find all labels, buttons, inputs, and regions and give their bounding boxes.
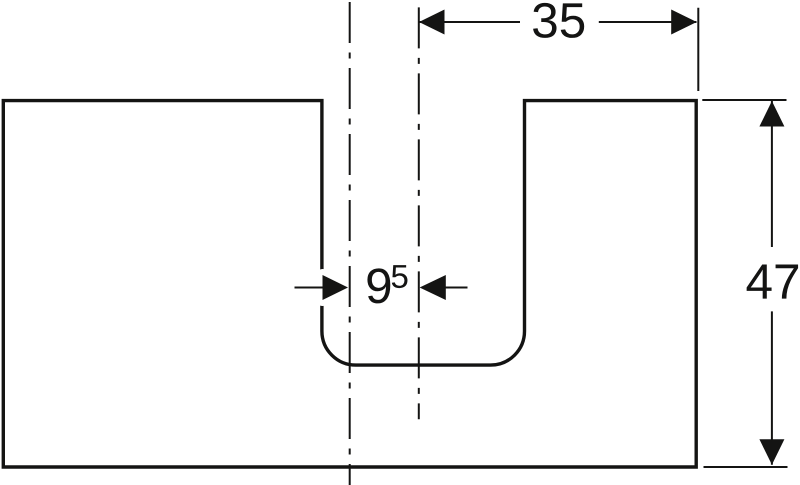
centerline CL1 (cutout axis, dash-dot, full height) (349, 2, 351, 485)
dim 35 line left segment (419, 21, 520, 23)
dim 9.5 left leader halo (295, 282, 325, 294)
dim 47 line upper segment (771, 101, 773, 247)
dim 47 top extension line (702, 99, 786, 101)
dim 35 right extension line (697, 8, 699, 91)
dim 47 line lower segment (771, 311, 773, 464)
dim 9.5 right arrowhead halo (420, 275, 446, 300)
dim 35 left arrowhead (419, 10, 445, 35)
dim 47 value text (747, 265, 798, 299)
centerline CL2 (dimension reference axis, dash-dot) (418, 7, 420, 419)
dim 35 value text (533, 3, 584, 38)
dim 9.5 left leader (295, 287, 325, 289)
dim 9.5 left arrowhead (323, 275, 349, 300)
dim 47 top arrowhead (759, 101, 784, 127)
worktop outline with U-shaped cutout (3, 101, 696, 467)
dim 47 bottom extension line (704, 466, 788, 468)
dim 47 bottom arrowhead (759, 439, 784, 465)
dim 9.5 right leader (445, 287, 467, 289)
dim 9.5 superscript "5" (392, 265, 408, 288)
dim 9.5 right arrowhead (420, 275, 446, 300)
dim 35 right arrowhead (671, 10, 697, 35)
dim 35 line right segment (599, 21, 697, 23)
dim 9.5 value text "9" (367, 268, 390, 303)
dim 9.5 left arrowhead halo (323, 275, 349, 300)
